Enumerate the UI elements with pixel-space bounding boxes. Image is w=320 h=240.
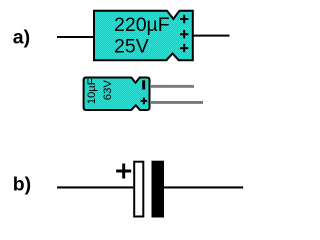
svg-text:b): b) <box>13 173 31 195</box>
C1 polarity + marks <box>180 15 188 53</box>
capacitor symbol negative plate (solid) <box>152 161 165 218</box>
capacitor symbol positive plate (hollow) <box>134 162 143 217</box>
svg-text:25V: 25V <box>114 36 149 58</box>
C2 minus polarity mark <box>142 80 145 89</box>
wire C2 positive (bottom) lead <box>150 101 203 104</box>
wire left of polarized capacitor symbol <box>57 186 133 188</box>
svg-text:63V: 63V <box>102 80 114 101</box>
C2 value label 10µF 63V (rotated) <box>86 78 114 104</box>
svg-text:a): a) <box>13 27 30 49</box>
wire left lead of C1 <box>57 36 95 38</box>
C2 plus polarity mark <box>141 98 148 105</box>
C1 value label 220µF 25V <box>114 14 170 58</box>
symbol + polarity mark <box>116 164 131 179</box>
wire right of polarized capacitor symbol <box>164 186 243 188</box>
svg-text:220µF: 220µF <box>114 14 170 36</box>
capacitor C1 body (axial electrolytic) <box>94 11 193 61</box>
svg-text:10µF: 10µF <box>86 78 98 104</box>
capacitor C2 body (radial electrolytic) <box>84 78 150 111</box>
wire C2 negative (top) lead <box>150 85 194 88</box>
wire right lead of C1 <box>193 35 230 37</box>
